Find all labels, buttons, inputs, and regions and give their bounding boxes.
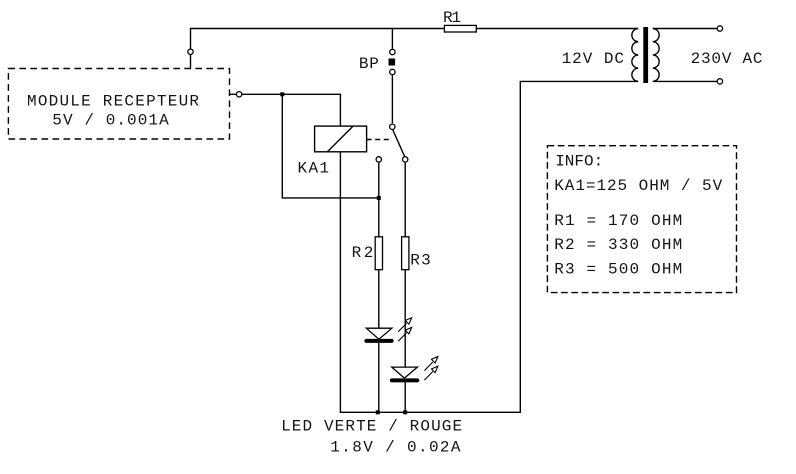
svg-text:MODULE RECEPTEUR: MODULE RECEPTEUR bbox=[27, 92, 199, 110]
svg-text:BP: BP bbox=[359, 55, 379, 73]
svg-text:INFO:: INFO: bbox=[555, 152, 603, 170]
svg-text:KA1=125 OHM / 5V: KA1=125 OHM / 5V bbox=[554, 177, 722, 195]
svg-text:R1: R1 bbox=[443, 9, 461, 27]
svg-text:12V DC: 12V DC bbox=[562, 50, 624, 68]
svg-text:LED VERTE / ROUGE: LED VERTE / ROUGE bbox=[281, 418, 462, 436]
svg-text:1.8V / 0.02A: 1.8V / 0.02A bbox=[330, 439, 461, 457]
svg-text:R1 = 170 OHM: R1 = 170 OHM bbox=[554, 212, 682, 230]
svg-text:230V AC: 230V AC bbox=[691, 50, 763, 68]
svg-text:R2 = 330 OHM: R2 = 330 OHM bbox=[554, 236, 682, 254]
svg-text:R3 = 500 OHM: R3 = 500 OHM bbox=[554, 260, 682, 278]
svg-text:5V / 0.001A: 5V / 0.001A bbox=[52, 111, 169, 129]
svg-text:R3: R3 bbox=[410, 251, 430, 269]
svg-text:KA1: KA1 bbox=[298, 159, 330, 177]
